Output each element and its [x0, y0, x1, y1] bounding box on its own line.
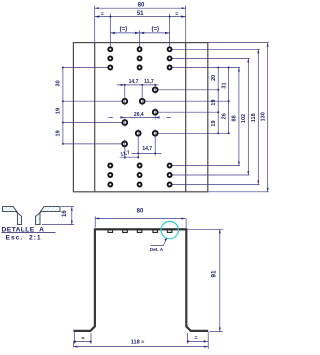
dimension 14,7 11,7 top — [117, 79, 159, 97]
chain dimension 31/26 — [221, 67, 229, 135]
svg-text:11,7: 11,7 — [120, 150, 131, 158]
hole H4 — [122, 120, 127, 125]
leader hole H5 — [155, 111, 219, 113]
extension line above left bend — [94, 6, 96, 43]
dimple collar 1 — [108, 230, 113, 233]
svg-text:Esc. 2:1: Esc. 2:1 — [6, 235, 42, 242]
leader top row1 — [170, 48, 260, 50]
dimple tabs — [108, 230, 172, 233]
svg-text:14,7: 14,7 — [129, 79, 139, 85]
hole center marks — [125, 86, 156, 149]
leader bottom row3 — [170, 184, 260, 186]
dimple collar 2 — [123, 230, 128, 233]
svg-text:19: 19 — [211, 120, 217, 126]
svg-text:19: 19 — [56, 130, 62, 136]
detail section right material — [36, 207, 60, 225]
leader to Det. A — [151, 238, 167, 245]
dimension 102 — [241, 58, 249, 175]
svg-text:19: 19 — [211, 99, 217, 105]
bend line left — [94, 43, 96, 192]
leader hole H3 — [142, 100, 230, 102]
svg-text:30: 30 — [56, 80, 62, 86]
leader top row2 — [170, 57, 250, 59]
svg-text:=: = — [101, 12, 104, 18]
extension line col3 — [169, 14, 171, 47]
svg-text:(=): (=) — [152, 27, 160, 33]
dimension = right foot — [187, 332, 208, 349]
leader top row3 — [170, 67, 241, 69]
dimension 130 — [260, 43, 267, 192]
svg-text:51: 51 — [137, 11, 144, 17]
dimension 14,7 bottom — [132, 137, 162, 159]
dimension 26,4 — [109, 112, 171, 119]
svg-text:=: = — [194, 336, 197, 342]
dimension 80 top — [95, 3, 186, 9]
dimple collar 4 — [153, 230, 158, 233]
svg-text:80: 80 — [137, 209, 144, 215]
extension bottom right corner — [208, 191, 269, 193]
extension line col2 — [139, 30, 141, 47]
web top line — [94, 228, 187, 230]
hole H6b — [153, 131, 158, 136]
leader hole H7 — [63, 143, 125, 145]
extension top right corner — [208, 42, 269, 44]
leader bottom row1 — [170, 165, 241, 167]
svg-text:26: 26 — [221, 113, 227, 119]
extension line col1 — [109, 14, 111, 47]
hole H2 — [122, 99, 127, 104]
leader hole H6b — [155, 132, 230, 134]
bottom 3x3 hole group — [108, 164, 171, 187]
svg-text:31: 31 — [221, 82, 227, 88]
svg-text:16: 16 — [62, 210, 68, 217]
leader hole H2 — [63, 100, 125, 102]
svg-text:19: 19 — [56, 108, 62, 114]
detail circle A — [161, 221, 178, 238]
svg-text:130: 130 — [260, 112, 266, 121]
leader hole H4 — [63, 122, 125, 124]
dimension = left foot — [74, 332, 92, 343]
svg-text:118: 118 — [251, 113, 257, 122]
dimension 91 — [187, 229, 223, 331]
dimension 11,7 bottom (tilted text) — [120, 148, 140, 160]
svg-text:118 ≈: 118 ≈ — [131, 340, 144, 346]
dimension 80 bottom — [95, 209, 186, 229]
hole H1 — [153, 87, 158, 92]
svg-text:=: = — [81, 336, 84, 342]
left leg and foot — [73, 229, 95, 331]
bend line right — [185, 43, 187, 192]
top view outer outline — [73, 43, 207, 192]
dimension 118 — [251, 49, 258, 184]
svg-text:(=): (=) — [120, 27, 128, 33]
detail section left material — [3, 207, 22, 225]
svg-text:14,7: 14,7 — [142, 146, 152, 152]
middle cluster holes — [122, 87, 157, 146]
hole H6a — [136, 131, 141, 136]
svg-text:80: 80 — [138, 3, 145, 9]
svg-text:Det. A: Det. A — [150, 247, 163, 252]
leader row3 top group — [63, 67, 110, 69]
right leg and foot — [186, 229, 208, 331]
hole H7 — [122, 142, 127, 147]
underline — [2, 232, 56, 234]
dimple collar 5 — [167, 230, 172, 233]
detail dimension 16 — [42, 207, 74, 225]
svg-text:88: 88 — [231, 115, 237, 121]
left leader lines — [63, 68, 125, 144]
svg-text:102: 102 — [241, 114, 247, 123]
leader hole H1 — [155, 89, 219, 91]
svg-text:91: 91 — [211, 270, 218, 278]
hole H3 — [140, 99, 145, 104]
hole H5 — [153, 110, 158, 115]
svg-text:20: 20 — [211, 75, 217, 81]
dimension (=) (=) between hole columns — [110, 27, 169, 35]
extension line above right bend — [185, 6, 187, 43]
dimension 88 — [231, 68, 239, 166]
svg-text:11,7: 11,7 — [144, 79, 154, 85]
svg-text:=: = — [175, 12, 178, 18]
top 3x3 hole group — [108, 47, 171, 69]
chain dimension 20/19/19 — [211, 67, 219, 135]
leader bottom row2 — [170, 174, 250, 176]
dimension 118 ~ — [73, 340, 208, 348]
dimple collar 3 — [137, 230, 142, 233]
dimension 51 with equal margins — [95, 11, 186, 18]
svg-text:26,4: 26,4 — [134, 112, 144, 118]
